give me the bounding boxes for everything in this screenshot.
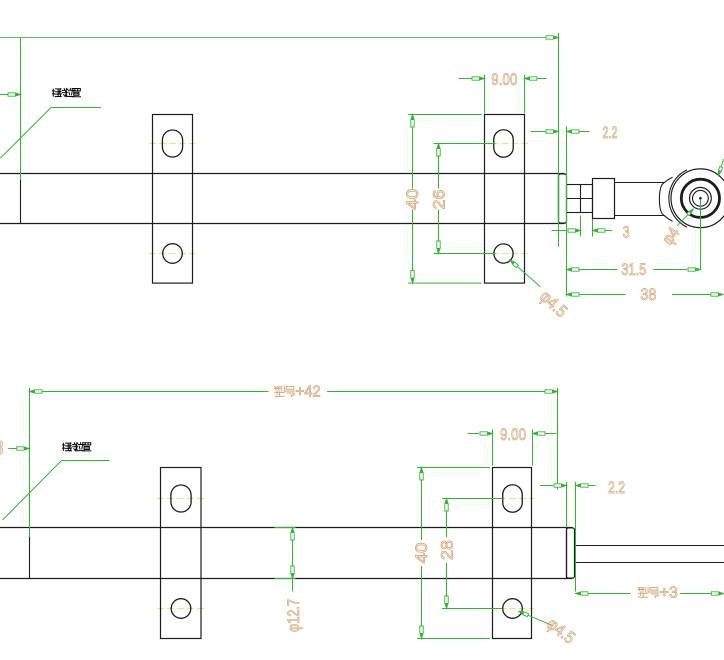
svg-text:31.5: 31.5 [621, 260, 646, 279]
svg-text:9.00: 9.00 [500, 425, 526, 444]
svg-text:2.2: 2.2 [608, 478, 625, 497]
svg-text:φ12.7: φ12.7 [284, 599, 303, 632]
svg-text:2.2: 2.2 [603, 123, 618, 142]
svg-text:26: 26 [429, 190, 448, 210]
svg-text:+3: +3 [660, 584, 678, 601]
svg-text:8: 8 [0, 437, 4, 460]
svg-text:9.00: 9.00 [491, 70, 517, 89]
svg-text:40: 40 [403, 189, 422, 210]
svg-text:38: 38 [640, 285, 656, 304]
svg-text:40: 40 [412, 543, 431, 564]
svg-text:3: 3 [623, 222, 630, 241]
svg-text:+42: +42 [296, 384, 321, 401]
svg-text:28: 28 [438, 540, 457, 560]
